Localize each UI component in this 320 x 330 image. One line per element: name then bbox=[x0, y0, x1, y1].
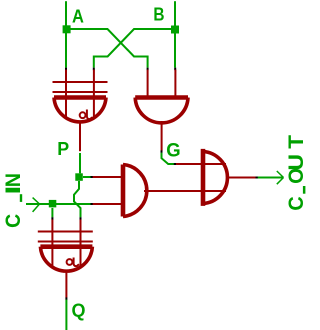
gate XOR2 output pin bbox=[65, 270, 67, 298]
svg-text:N: N bbox=[1, 173, 25, 187]
pin dot AND3 in1 bbox=[91, 176, 94, 178]
arrow C_OUT bbox=[277, 171, 284, 184]
svg-text:Q: Q bbox=[72, 301, 86, 321]
node C_IN bbox=[49, 200, 57, 208]
pin dot G top bbox=[161, 150, 163, 153]
wire B cross to left gate bbox=[94, 29, 175, 68]
wire P down from XOR1 bbox=[79, 153, 81, 173]
svg-text:P: P bbox=[57, 139, 69, 159]
wire C_IN down to XOR2 bbox=[51, 208, 53, 217]
node A bbox=[63, 25, 71, 33]
gate AND3 output pin / OR4 lower input bbox=[144, 190, 226, 192]
svg-text:U: U bbox=[285, 154, 307, 171]
pin dot C_OUT bbox=[256, 177, 259, 179]
wire P to AND3 bbox=[83, 176, 91, 178]
gate AND2 output pin bbox=[161, 121, 163, 151]
arrow C_IN bbox=[33, 198, 40, 212]
gate OR4 (C_OUT = G or P.C_IN) bbox=[203, 149, 227, 206]
svg-text:A: A bbox=[72, 7, 84, 27]
svg-text:C: C bbox=[1, 214, 25, 228]
gate XOR2 (Q = P xor C_IN) bbox=[38, 220, 93, 272]
pin dot XOR2 in1 bbox=[51, 217, 53, 220]
gate AND2 (G = A and B) bbox=[135, 70, 188, 123]
pin dot G bottom bbox=[174, 163, 177, 165]
gate OR4 output pin bbox=[227, 177, 256, 179]
gate AND3 (P and C_IN) bbox=[93, 165, 147, 217]
wire A vertical bbox=[65, 1, 67, 67]
pin dot Q bbox=[65, 297, 67, 300]
wire Q bbox=[65, 300, 67, 330]
pin dot XOR1 in2 bbox=[93, 68, 95, 71]
gate XOR1 output pin bbox=[79, 121, 81, 152]
designator glyph bbox=[67, 259, 73, 265]
label C_OUT (rotated) bbox=[285, 135, 308, 211]
wire P jog down to XOR2 bbox=[74, 181, 81, 217]
gate XOR1 (P = A xor B) bbox=[53, 70, 108, 122]
svg-text:C: C bbox=[285, 196, 307, 210]
label C_IN (rotated) bbox=[1, 173, 25, 228]
pin dot AND2 in2 bbox=[174, 68, 176, 71]
wire B vertical bbox=[174, 1, 176, 67]
wire A cross to right gate bbox=[66, 29, 148, 68]
designator glyph bbox=[80, 112, 86, 118]
pin dot AND2 in1 bbox=[147, 68, 149, 71]
node P bbox=[75, 173, 83, 181]
wire C_OUT bbox=[258, 177, 284, 179]
node B bbox=[171, 26, 179, 34]
pin dot XOR1 in1 bbox=[65, 68, 67, 71]
pin dot XOR2 in2 bbox=[80, 217, 82, 220]
wire G bbox=[162, 153, 175, 164]
pin dot AND3 in2 bbox=[91, 203, 94, 205]
gate OR4 upper input pin bbox=[176, 163, 226, 165]
svg-text:B: B bbox=[153, 4, 164, 24]
wire C_IN bbox=[26, 203, 91, 205]
svg-text:G: G bbox=[166, 141, 180, 162]
svg-text:T: T bbox=[285, 135, 307, 149]
